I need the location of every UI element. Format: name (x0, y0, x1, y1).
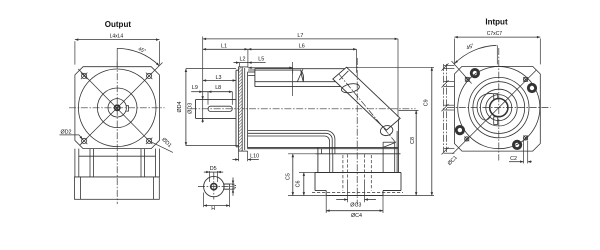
cover hole ellipse 2 (379, 124, 394, 137)
dimension OD3 (188, 96, 204, 122)
input tapped hole BL (464, 136, 469, 141)
svg-text:ØC4: ØC4 (351, 213, 362, 219)
svg-text:C8: C8 (410, 137, 416, 144)
input register circle (458, 67, 540, 149)
input flange outline (454, 66, 540, 151)
input circle 3 (473, 82, 525, 134)
datum extension line (202, 37, 204, 123)
input bore (490, 99, 508, 117)
dimension C5 (285, 154, 326, 196)
svg-text:L9: L9 (192, 85, 198, 91)
centerline horizontal (69, 107, 165, 109)
dimension L8 (203, 85, 233, 105)
elbow bore lines (248, 131, 335, 154)
shaft keyway slot (208, 106, 232, 111)
dimension L10 (232, 151, 259, 161)
dimension OC1 (447, 155, 459, 167)
dimension L9 (191, 85, 203, 93)
flange step lines (242, 67, 255, 151)
bolt hole BL (81, 138, 88, 145)
svg-text:L2: L2 (240, 56, 246, 62)
input centerline v (498, 48, 500, 161)
svg-text:Intput: Intput (485, 18, 508, 27)
section centerline v (213, 173, 215, 200)
dimension L2 (233, 56, 265, 67)
dimension L1 (203, 44, 248, 51)
input bolt hole BR (512, 140, 521, 149)
input tapped hole TR (523, 77, 528, 82)
dimension L7 (203, 33, 398, 117)
svg-text:ØC3: ØC3 (350, 203, 361, 209)
svg-text:L3: L3 (216, 75, 222, 81)
cover hole ellipse 1 (341, 82, 361, 94)
title Output (105, 20, 132, 29)
svg-text:C5: C5 (285, 173, 291, 180)
bolt hole BR (146, 138, 153, 145)
svg-text:L7: L7 (297, 33, 303, 39)
dimension L3 (203, 75, 236, 82)
motor interface lines (442, 63, 455, 154)
output register circle (78, 69, 156, 147)
svg-text:Output: Output (105, 20, 132, 29)
input circle 2 (469, 77, 529, 137)
input tapped hole TL (465, 77, 470, 82)
dimension H (204, 190, 230, 212)
input bolt hole TR (527, 83, 536, 92)
svg-text:D5: D5 (210, 166, 217, 172)
svg-text:H: H (211, 206, 215, 212)
dimension W (224, 178, 238, 196)
output axis centerline (190, 108, 416, 110)
dimension OC3 (336, 181, 376, 209)
output shaft circle (108, 99, 126, 117)
svg-text:C6: C6 (296, 180, 302, 187)
input boss circle (486, 95, 512, 121)
bottom flange slab (315, 173, 401, 191)
svg-text:L5: L5 (258, 56, 264, 62)
svg-text:L6: L6 (299, 44, 305, 50)
output body lower section (75, 177, 160, 199)
centerline vertical (116, 62, 118, 155)
hidden bore lines (343, 154, 371, 190)
dimension 45deg input (455, 43, 498, 64)
dimension C8 (399, 110, 419, 195)
dimension C7xC7 (454, 31, 540, 64)
dimension 45deg output (117, 46, 159, 66)
centerline vertical lower (116, 155, 118, 205)
top boss bar (255, 69, 345, 87)
bevel cover inner edge (339, 71, 348, 80)
input section walls (318, 119, 399, 173)
diagonal centerline D1 (78, 69, 173, 152)
dimension C2 (509, 141, 532, 164)
bolt hole TL (81, 73, 88, 80)
input keyway top (494, 94, 498, 99)
output shaft (196, 100, 237, 119)
output flange plate section (239, 67, 243, 151)
dimension L6 (248, 44, 357, 73)
section shoulder line (316, 153, 401, 155)
input diagonal BLTR (453, 70, 537, 154)
housing top edge (248, 71, 255, 73)
hidden mount face line (312, 192, 403, 194)
output keyway notch (126, 106, 129, 111)
input diagonal TLBR (452, 61, 472, 84)
dimension C6 (296, 173, 315, 196)
output flange outline (75, 67, 159, 149)
dimension C9 (347, 67, 435, 195)
clamp collar contour (477, 93, 494, 120)
input axis centerline (356, 58, 358, 205)
shaft section circle (204, 176, 224, 196)
output boss circle (97, 88, 137, 128)
dimension L5 (248, 56, 293, 73)
dimension OD1 (160, 137, 172, 149)
diagonal centerline 45 (80, 63, 163, 146)
output center bore (115, 105, 120, 110)
shaft section bore (211, 184, 217, 190)
L5 extension vertical (292, 62, 294, 96)
input centerline h (447, 107, 551, 109)
input tapped hole BR (523, 135, 528, 140)
bolt hole TR (146, 73, 153, 80)
input bolt hole TL (470, 68, 479, 77)
dimension L4xL4 (75, 33, 159, 64)
svg-text:C9: C9 (424, 99, 430, 106)
svg-text:L1: L1 (221, 44, 227, 50)
svg-text:L10: L10 (250, 153, 259, 159)
dimension OD2 (60, 130, 83, 140)
dimension OD4 (177, 69, 238, 146)
dimension OC4 (326, 196, 383, 219)
input step circle (480, 89, 517, 126)
wedge pocket (383, 142, 395, 172)
svg-text:ØD3: ØD3 (188, 103, 194, 114)
svg-text:ØD4: ØD4 (177, 101, 183, 112)
bevel axis centerline (339, 74, 397, 144)
section centerline h (198, 186, 233, 188)
dimension D5 (204, 166, 223, 182)
bevel cover box (333, 67, 400, 130)
svg-text:L8: L8 (215, 85, 221, 91)
section key (224, 184, 230, 189)
output register boss (236, 70, 239, 147)
input bolt hole BL (455, 125, 464, 134)
svg-text:L4xL4: L4xL4 (110, 33, 124, 39)
output body upper section (75, 149, 159, 177)
input keyway bottom (494, 117, 498, 125)
svg-text:C7xC7: C7xC7 (487, 31, 503, 37)
bottom pilot boss (326, 191, 383, 196)
title Intput (485, 18, 508, 27)
housing bottom edge (248, 147, 399, 148)
